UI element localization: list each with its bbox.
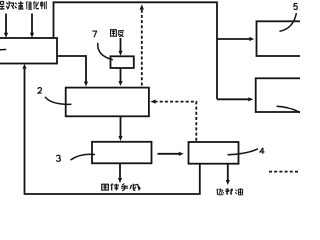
box 6 (unit 6, cut off at right edge) <box>256 78 309 112</box>
arrowhead: recycle up into box1 bottom <box>22 64 26 69</box>
text: 催化剂 (catalyst label, pseudo-glyphs) <box>26 1 46 9</box>
label: digit 7 <box>92 31 96 37</box>
wire: recycle loop box4 bottom to box1 bottom <box>25 69 200 194</box>
wire: box1 right branch down into box2 <box>57 56 86 82</box>
wire: box3 right into box4 <box>158 153 180 155</box>
leader curve: label 2 into box2 <box>45 97 72 105</box>
label: digit 2 <box>38 88 42 94</box>
arrowhead: slag feed <box>4 33 8 38</box>
arrowhead: into box6 <box>248 97 253 101</box>
wire: box4 down to fuel oil <box>227 164 229 180</box>
wire: riser elbow arrow into box6 <box>217 98 249 100</box>
text: 固废 (solid waste label, pseudo-glyphs) <box>111 30 124 37</box>
label: digit 3 <box>56 155 60 161</box>
dashed wire: gas from box2 top up to header pipe <box>141 9 143 86</box>
arrowhead: box7 into box2 <box>118 81 122 86</box>
leader curve: label 7 into box7 <box>98 43 113 60</box>
leader curve: label 6 from box6 (label cut off) <box>277 106 301 112</box>
arrowhead: into box2 top from box1 <box>84 82 88 87</box>
leader curve: label 4 from box4 <box>228 149 259 155</box>
box 5 (unit 5, cut off at right edge) <box>257 21 309 56</box>
arrowhead: box2 into box3 <box>118 136 122 141</box>
arrowhead: solid product down <box>118 178 122 183</box>
wire: box7 down into box2 <box>120 68 122 81</box>
text: 温炉渣 (slag feed label, pseudo-glyphs) <box>0 1 23 9</box>
box 7 (solid waste feed hopper) <box>111 56 134 68</box>
arrowhead: catalyst feed <box>30 33 34 38</box>
arrowhead: dashed gas up into header <box>140 4 144 9</box>
wire: box2 down into box3 <box>120 116 122 136</box>
label: digit 4 <box>260 148 265 154</box>
box 2 (unit 2) <box>66 88 149 117</box>
box 4 (unit 4) <box>189 142 239 164</box>
wire: slag feed arrow into box1 top <box>5 14 7 34</box>
dashed wire: from box4 top up and left into box2 right <box>155 102 196 141</box>
wire: solid waste label arrow into box7 <box>120 38 122 51</box>
wire: box3 down to solid product <box>119 164 121 179</box>
wire: catalyst feed arrow into box1 top <box>31 14 33 34</box>
dashed wire: bottom right segment <box>269 171 301 173</box>
text: 燃料油 (fuel oil label, pseudo-glyphs) <box>217 188 243 195</box>
leader curve: label 3 into box3 <box>71 154 96 160</box>
box 3 (unit 3) <box>92 142 152 164</box>
arrowhead: fuel oil down <box>226 180 230 185</box>
arrowhead: into box7 top <box>118 51 122 56</box>
arrowhead: into box5 <box>249 37 254 41</box>
box 1 (slag reactor, cut off at left edge) <box>0 38 57 64</box>
text: 固体产物 (solid product label, pseudo-glyphs) <box>102 183 140 190</box>
leader curve: label 1 (cut off at left edge) <box>0 49 6 51</box>
arrowhead: box3 into box4 <box>179 152 184 156</box>
arrowhead: dashed into box2 right edge <box>151 100 156 104</box>
wire: top header pipe from box1 to right riser <box>54 2 218 99</box>
label: digit 5 (cut at top-right corner) <box>294 4 298 10</box>
leader curve: label 5 from box5 <box>280 13 297 31</box>
wire: riser branch arrow into box5 <box>217 38 250 40</box>
